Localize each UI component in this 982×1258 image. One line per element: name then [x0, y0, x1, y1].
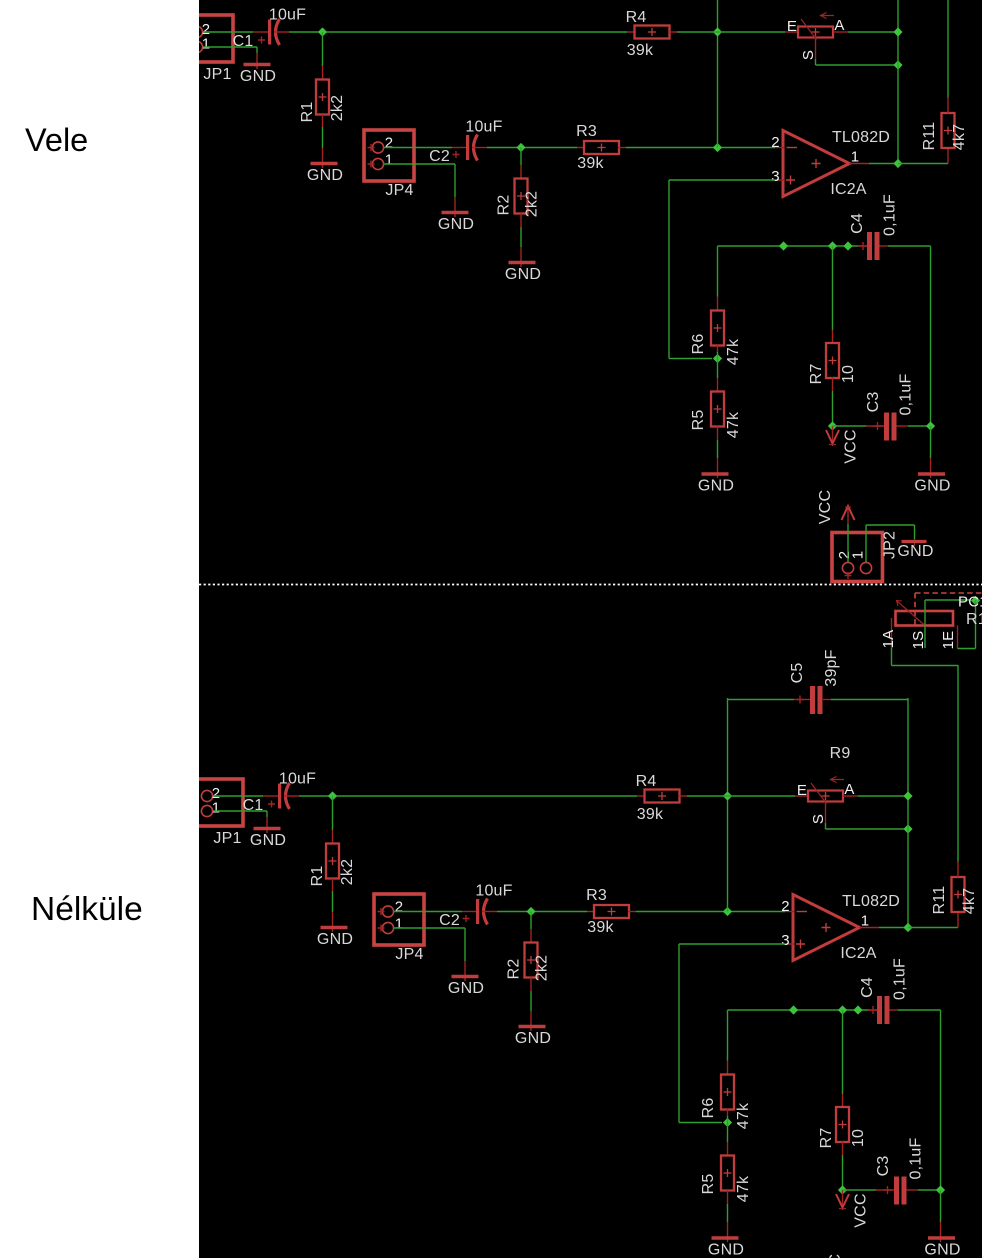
svg-text:R10: R10	[966, 611, 982, 628]
wire vertical R4 node to pin2 node	[727, 698, 729, 912]
ground GND (R2)	[515, 1027, 551, 1048]
junction C4 net c	[843, 241, 852, 250]
wire R6 to node	[717, 352, 719, 359]
R9 pin S wire	[825, 802, 827, 824]
resistor R1	[299, 66, 346, 127]
svg-text:0,1uF: 0,1uF	[882, 194, 899, 236]
resistor R4	[636, 773, 687, 823]
wire pin3 down	[668, 180, 670, 359]
GND pin (JP2)	[914, 539, 916, 546]
wire C1 to R4	[289, 31, 627, 33]
svg-text:R1: R1	[299, 102, 316, 123]
svg-text:GND: GND	[515, 1030, 551, 1047]
ground GND (JP4)	[438, 213, 474, 234]
GND pin (R1)	[322, 148, 324, 168]
svg-text:47k: 47k	[725, 411, 742, 438]
svg-text:VCC: VCC	[827, 1254, 844, 1258]
svg-text:R3: R3	[576, 123, 597, 140]
capacitor C5	[789, 649, 840, 714]
connector JP4	[364, 130, 414, 199]
schematic panel	[199, 0, 982, 1258]
svg-text:C1: C1	[233, 33, 254, 50]
junction output node	[903, 923, 912, 932]
pin 1 stub	[850, 163, 870, 165]
svg-text:10: 10	[850, 1129, 867, 1147]
supply VCC arrow (R7)	[826, 426, 860, 464]
resistor R7	[818, 1094, 867, 1155]
ground GND (C3)	[924, 1238, 960, 1258]
ground GND (C3)	[914, 474, 950, 495]
ground GND (R5)	[708, 1238, 744, 1258]
wire node to R1	[322, 32, 324, 66]
ground GND (JP2)	[897, 542, 933, 561]
svg-text:R9: R9	[830, 745, 851, 762]
resistor R7	[808, 330, 857, 391]
wire S to node	[925, 599, 971, 601]
svg-text:39k: 39k	[627, 42, 654, 59]
capacitor C2	[429, 119, 503, 166]
resistor R3	[586, 887, 636, 936]
svg-text:C3: C3	[865, 392, 882, 413]
junction VCC node	[828, 421, 837, 430]
svg-text:GND: GND	[505, 266, 541, 283]
wire node to R1	[332, 796, 334, 830]
svg-text:JP1: JP1	[213, 830, 241, 847]
junction A/main node	[903, 791, 912, 800]
wire JP1 pin2 to C1	[213, 795, 263, 797]
plus mark output	[822, 923, 831, 932]
junction C4 net b	[828, 241, 837, 250]
wire JP2 pin2 to VCC	[847, 524, 849, 563]
wire node to R5	[717, 359, 719, 379]
wire pin3 net	[679, 943, 785, 945]
op-amp IC2A TL082D	[781, 893, 900, 962]
wire C1 to R4	[299, 795, 637, 797]
wire node to R2	[530, 912, 532, 930]
GND pin (R2)	[520, 247, 522, 267]
supply VCC arrow (R7)	[836, 1190, 870, 1228]
junction R4 output node	[713, 27, 722, 36]
resistor R6	[690, 297, 742, 366]
svg-text:GND: GND	[250, 832, 286, 849]
pin 2 stub	[785, 911, 794, 913]
svg-text:A: A	[834, 17, 844, 34]
ground GND (R5)	[698, 474, 734, 495]
supply VCC arrow (JP2)	[827, 1254, 865, 1258]
svg-text:R1: R1	[309, 866, 326, 887]
wire C4 to right vertical	[888, 245, 931, 247]
pin 1 stub	[860, 927, 880, 929]
wire R7 top	[832, 246, 834, 330]
wire R7 to VCC node	[842, 1155, 844, 1190]
capacitor C2	[439, 883, 513, 930]
svg-text:1: 1	[385, 152, 394, 169]
wire C4 to right vertical	[898, 1009, 941, 1011]
svg-text:39k: 39k	[637, 806, 664, 823]
dashed box (bottom right)	[915, 593, 982, 625]
wire JP4 pin2 to C2	[394, 911, 462, 913]
wire R11 up	[947, 0, 949, 98]
wire JP1 pin1	[213, 810, 267, 812]
wire JP1 pin1 down	[266, 811, 268, 817]
connector JP4	[374, 894, 424, 963]
junction C4 net b	[838, 1005, 847, 1014]
wire R1 to GND	[322, 127, 324, 148]
wire R3 to op-amp pin2	[626, 147, 775, 149]
svg-text:R3: R3	[586, 887, 607, 904]
wire output to R11	[898, 163, 948, 165]
svg-text:39pF: 39pF	[823, 649, 840, 686]
svg-text:R5: R5	[700, 1174, 717, 1195]
GND pin (JP4)	[464, 961, 466, 981]
resistor R11	[931, 862, 978, 928]
ground GND (JP1)	[250, 829, 286, 850]
GND pin (R5)	[717, 458, 719, 478]
resistor R2	[496, 165, 541, 227]
svg-text:0,1uF: 0,1uF	[908, 1138, 925, 1180]
svg-text:JP1: JP1	[203, 66, 231, 83]
connector JP1 (top)	[186, 15, 233, 83]
R9 wiper diagonal	[801, 19, 817, 40]
wire pin3 to R5/R6 node	[669, 358, 712, 360]
svg-text:1: 1	[202, 36, 211, 53]
svg-text:A: A	[844, 781, 854, 798]
wire right vertical down	[940, 1010, 942, 1190]
svg-text:R7: R7	[808, 364, 825, 385]
wire right vertical down	[930, 246, 932, 426]
svg-text:0,1uF: 0,1uF	[892, 958, 909, 1000]
svg-text:IC2A: IC2A	[840, 945, 876, 962]
junction R5/R6 node	[723, 1118, 732, 1127]
wire R10 S wiper	[924, 600, 926, 648]
capacitor C3	[833, 374, 915, 441]
caption Vele	[25, 122, 88, 159]
junction R3/R4 feedback node	[713, 143, 722, 152]
GND pin (R1)	[332, 912, 334, 932]
wire R4 to trimmer R9	[687, 795, 795, 797]
wire C3 to right vertical	[918, 1189, 941, 1191]
svg-text:GND: GND	[438, 216, 474, 233]
svg-text:1: 1	[851, 149, 860, 166]
svg-text:47k: 47k	[735, 1102, 752, 1129]
junction R4 output node	[723, 791, 732, 800]
wire node to R5	[727, 1123, 729, 1143]
svg-text:1: 1	[861, 913, 870, 930]
wire pin3 down	[678, 944, 680, 1123]
resistor R3	[576, 123, 626, 172]
svg-text:47k: 47k	[725, 338, 742, 365]
wire R11 up	[957, 665, 959, 862]
svg-text:GND: GND	[307, 167, 343, 184]
junction C4 net c	[853, 1005, 862, 1014]
wire node to GND	[930, 426, 932, 458]
svg-text:1E: 1E	[940, 631, 957, 650]
wire R1 to GND	[332, 891, 334, 912]
svg-text:R5: R5	[690, 410, 707, 431]
svg-text:2k2: 2k2	[524, 191, 541, 217]
wire node to GND	[940, 1190, 942, 1222]
wire C4 net horizontal	[718, 245, 861, 247]
resistor R5	[690, 378, 742, 440]
GND pin (C3)	[930, 458, 932, 478]
wire S pin down	[815, 59, 817, 65]
wire JP4 pin1 down	[454, 164, 456, 197]
svg-text:2: 2	[395, 899, 404, 916]
minus mark	[797, 911, 808, 913]
junction at C1/R1 node	[318, 27, 327, 36]
wire R6 to node	[727, 1116, 729, 1123]
wire R5 to GND	[717, 440, 719, 458]
svg-text:1: 1	[850, 551, 867, 560]
ground GND (JP4)	[448, 977, 484, 998]
plus mark output	[812, 159, 821, 168]
svg-text:3: 3	[781, 932, 790, 949]
resistor R2	[506, 929, 551, 991]
svg-text:2: 2	[781, 898, 790, 915]
svg-text:1: 1	[395, 916, 404, 933]
GND pin (JP4)	[454, 197, 456, 217]
wire op-amp output	[879, 927, 908, 929]
svg-text:JP2: JP2	[882, 531, 899, 559]
svg-text:2k2: 2k2	[534, 955, 551, 981]
svg-text:TL082D: TL082D	[832, 129, 890, 146]
svg-text:IC2A: IC2A	[830, 181, 866, 198]
capacitor C3	[843, 1138, 925, 1205]
junction S wire	[903, 824, 912, 833]
junction output node	[893, 159, 902, 168]
svg-text:C5: C5	[789, 663, 806, 684]
wire C4 net horizontal	[728, 1009, 871, 1011]
dotted separator line	[199, 584, 982, 586]
wire R5 to GND	[727, 1204, 729, 1222]
capacitor C4	[849, 194, 899, 260]
svg-text:VCC: VCC	[817, 490, 834, 524]
R10 pin 1A	[891, 618, 893, 648]
wire JP2 pin1 right	[866, 524, 915, 526]
wire S to output node	[816, 64, 899, 66]
svg-text:E: E	[797, 782, 807, 799]
trimmer R9 (E/S/A)	[795, 777, 858, 825]
svg-text:2k2: 2k2	[329, 95, 346, 121]
svg-text:C4: C4	[859, 977, 876, 998]
svg-text:GND: GND	[698, 478, 734, 495]
wire JP1 pin2 to C1	[203, 31, 253, 33]
svg-text:GND: GND	[448, 980, 484, 997]
wire output to R11	[908, 927, 958, 929]
wire JP1 pin1	[203, 46, 257, 48]
svg-text:GND: GND	[897, 543, 933, 560]
wire JP4 pin1 down	[464, 928, 466, 961]
connector JP1 (bottom)	[196, 779, 243, 847]
svg-text:39k: 39k	[577, 155, 604, 172]
svg-text:GND: GND	[317, 931, 353, 948]
svg-text:10uF: 10uF	[279, 771, 316, 788]
svg-text:JP4: JP4	[395, 946, 423, 963]
supply VCC arrow (JP2)	[817, 490, 855, 524]
wire C5 right	[831, 699, 908, 701]
junction C4 net a	[789, 1005, 798, 1014]
svg-text:10uF: 10uF	[269, 7, 306, 24]
svg-text:R6: R6	[690, 334, 707, 355]
resistor R5	[700, 1142, 752, 1204]
svg-text:10uF: 10uF	[465, 119, 502, 136]
svg-text:10uF: 10uF	[475, 883, 512, 900]
connector JP2	[832, 531, 899, 582]
svg-text:2: 2	[385, 135, 394, 152]
wire 1E up to node	[975, 601, 977, 649]
wire JP4 pin1	[394, 927, 465, 929]
svg-text:R11: R11	[931, 886, 948, 915]
wire R4 to trimmer R9	[677, 31, 785, 33]
ground GND (R1)	[307, 164, 343, 185]
GND pin (JP1)	[256, 53, 258, 69]
pin 2 stub	[775, 147, 784, 149]
junction S wire	[893, 60, 902, 69]
wire R2 to GND	[520, 227, 522, 247]
wire C2 to R3	[487, 147, 577, 149]
svg-text:S: S	[800, 50, 817, 60]
svg-text:E: E	[787, 18, 797, 35]
svg-text:C2: C2	[439, 912, 460, 929]
svg-text:S: S	[810, 814, 827, 824]
wire trimmer A to vertical	[858, 795, 908, 797]
svg-text:GND: GND	[708, 1242, 744, 1258]
svg-text:0,1uF: 0,1uF	[898, 374, 915, 416]
svg-text:GND: GND	[924, 1242, 960, 1258]
svg-text:TL082D: TL082D	[842, 893, 900, 910]
svg-text:3: 3	[771, 168, 780, 185]
junction at C2/R2 node	[516, 143, 525, 152]
wire 1A to R11 drop	[892, 665, 959, 667]
svg-text:R4: R4	[626, 9, 647, 26]
svg-text:4k7: 4k7	[961, 888, 978, 914]
svg-text:C4: C4	[849, 213, 866, 234]
wire pin3 net	[669, 179, 775, 181]
svg-text:GND: GND	[240, 68, 276, 85]
GND pin (JP1)	[266, 817, 268, 833]
ground GND (R1)	[317, 928, 353, 949]
wire C4 net from R6	[727, 1010, 729, 1061]
wire JP1 pin1 down	[256, 47, 258, 53]
svg-text:JP4: JP4	[385, 182, 413, 199]
junction R5/R6 node	[713, 354, 722, 363]
svg-text:C2: C2	[429, 148, 450, 165]
wire S to output node	[826, 828, 909, 830]
wire C5 left	[728, 699, 795, 701]
capacitor C1	[243, 771, 317, 815]
wire 1E right	[958, 648, 976, 650]
svg-text:47k: 47k	[735, 1175, 752, 1202]
svg-text:R4: R4	[636, 773, 657, 790]
ground GND (JP1)	[240, 65, 276, 86]
junction C3/right node	[936, 1185, 945, 1194]
plus mark pin3	[786, 176, 795, 185]
trimmer R10 (1A/1S/1E)	[880, 601, 958, 650]
wire op-amp output	[869, 163, 898, 165]
wire pin3 to R5/R6 node	[679, 1122, 722, 1124]
GND pin (R5)	[727, 1222, 729, 1242]
resistor R1	[309, 830, 356, 891]
wire JP4 pin1	[384, 163, 455, 165]
wire R7 top	[842, 1010, 844, 1094]
wire vertical output feedback	[897, 0, 899, 164]
junction at C2/R2 node	[526, 907, 535, 916]
wire vertical output feedback	[907, 698, 909, 928]
minus mark	[787, 147, 798, 149]
R9 wiper diagonal	[811, 783, 827, 804]
op-amp IC2A TL082D	[771, 129, 890, 198]
wire R2 to GND	[530, 991, 532, 1011]
resistor R6	[700, 1061, 752, 1130]
pin 3 stub	[785, 943, 794, 945]
wire C4 net from R6	[717, 246, 719, 297]
R9 pin S wire	[815, 38, 817, 60]
R9 arrow	[831, 777, 845, 783]
svg-text:R6: R6	[700, 1098, 717, 1119]
capacitor C1	[233, 7, 307, 51]
svg-text:GND: GND	[914, 478, 950, 495]
svg-text:R11: R11	[921, 122, 938, 151]
junction VCC node	[838, 1185, 847, 1194]
junction PC node	[971, 596, 980, 605]
resistor R11	[921, 98, 968, 164]
resistor R4	[626, 9, 677, 59]
ground GND (R2)	[505, 263, 541, 284]
wire JP2 pin1 to GND	[914, 525, 916, 539]
wire C2 to R3	[497, 911, 587, 913]
wire R7 to VCC node	[832, 391, 834, 426]
wire R3 to op-amp pin2	[636, 911, 785, 913]
svg-text:R7: R7	[818, 1128, 835, 1149]
svg-text:VCC: VCC	[853, 1193, 870, 1227]
junction C4 net a	[779, 241, 788, 250]
pin 3 stub	[775, 179, 784, 181]
R10 pin 1E	[957, 626, 959, 649]
svg-text:4k7: 4k7	[951, 124, 968, 150]
junction at C1/R1 node	[328, 791, 337, 800]
GND pin (R2)	[530, 1011, 532, 1031]
svg-text:R2: R2	[496, 195, 513, 216]
wire JP2 pin1 up	[865, 525, 867, 563]
plus mark pin3	[796, 940, 805, 949]
wire node to R2	[520, 148, 522, 166]
svg-text:VCC: VCC	[843, 429, 860, 463]
svg-text:PC1: PC1	[958, 594, 982, 611]
svg-text:C3: C3	[875, 1156, 892, 1177]
GND pin (C3)	[940, 1222, 942, 1242]
caption Nélküle	[31, 891, 143, 929]
junction C3/right node	[926, 421, 935, 430]
svg-text:39k: 39k	[587, 919, 614, 936]
wire C3 to right vertical	[908, 425, 931, 427]
svg-text:R2: R2	[506, 959, 523, 980]
svg-text:1: 1	[212, 800, 221, 817]
capacitor C4	[859, 958, 909, 1024]
wire JP4 pin2 to C2	[384, 147, 452, 149]
junction A/main node	[893, 27, 902, 36]
svg-text:2k2: 2k2	[339, 859, 356, 885]
trimmer R9 (E/S/A)	[785, 13, 848, 61]
wire S pin down	[825, 823, 827, 829]
wire vertical R4 node to pin2 node	[717, 0, 719, 148]
svg-text:10: 10	[840, 365, 857, 383]
wire trimmer A to vertical	[848, 31, 898, 33]
R10 diagonal	[897, 601, 925, 626]
svg-text:C1: C1	[243, 797, 264, 814]
wire 1A down	[891, 648, 893, 666]
junction R3/R4 feedback node	[723, 907, 732, 916]
svg-text:2: 2	[771, 134, 780, 151]
